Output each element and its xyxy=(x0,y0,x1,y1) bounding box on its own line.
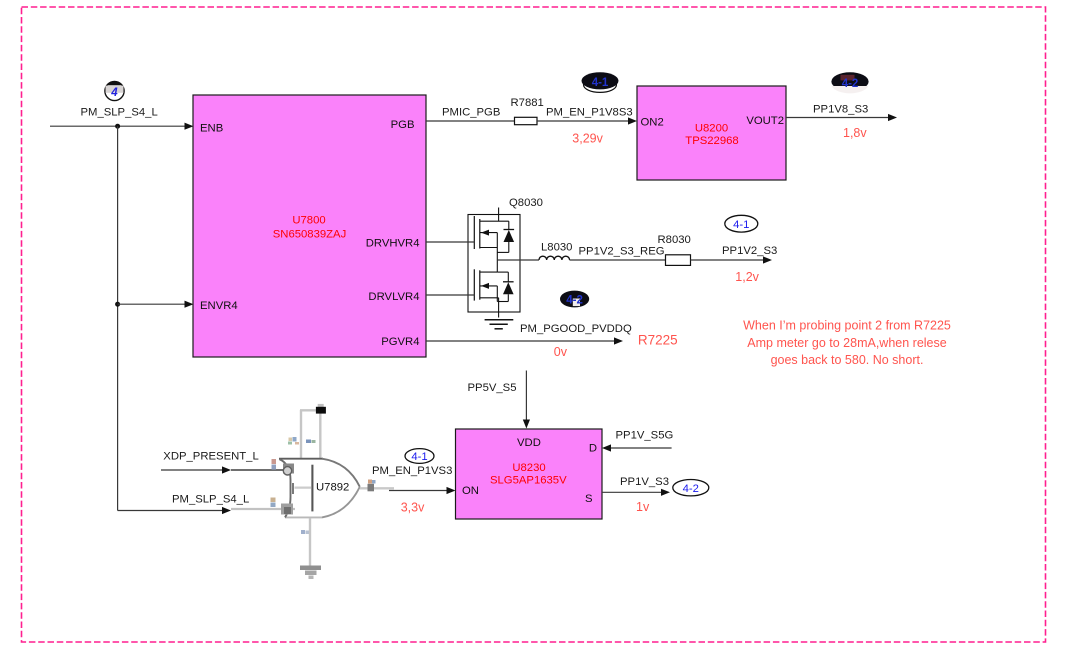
svg-text:4-2: 4-2 xyxy=(683,483,699,495)
wire R7881 to ON2 xyxy=(537,117,637,124)
svg-text:goes back to 580. No short.: goes back to 580. No short. xyxy=(771,353,924,367)
svg-text:VDD: VDD xyxy=(517,437,541,449)
svg-text:XDP_PRESENT_L: XDP_PRESENT_L xyxy=(163,450,258,462)
svg-text:D: D xyxy=(589,443,597,455)
svg-text:PP1V2_S3_REG: PP1V2_S3_REG xyxy=(579,245,665,257)
svg-text:U8200: U8200 xyxy=(695,123,728,135)
svg-text:PM_EN_P1VS3: PM_EN_P1VS3 xyxy=(372,465,452,477)
wire switch node xyxy=(497,259,539,261)
junction ENVR4 branch xyxy=(115,302,120,307)
svg-text:VOUT2: VOUT2 xyxy=(746,115,784,127)
wire VOUT2 output xyxy=(786,114,897,121)
marker 4-2 oval xyxy=(673,480,709,496)
svg-text:4-1: 4-1 xyxy=(592,77,609,89)
svg-text:DRVHVR4: DRVHVR4 xyxy=(366,238,420,250)
IC U8230 xyxy=(456,429,603,519)
svg-text:PP1V_S3: PP1V_S3 xyxy=(620,476,669,488)
wire S output PP1V_S3 xyxy=(602,489,670,496)
svg-text:U7892: U7892 xyxy=(316,482,349,494)
IC U8200 xyxy=(637,86,786,180)
svg-text:3,3v: 3,3v xyxy=(401,501,425,515)
wire ENVR4 input xyxy=(118,301,194,308)
svg-text:4-2: 4-2 xyxy=(566,295,583,307)
svg-text:Amp meter go to 28mA,when rele: Amp meter go to 28mA,when relese xyxy=(747,336,946,350)
svg-text:PMIC_PGB: PMIC_PGB xyxy=(442,107,500,119)
svg-text:ON: ON xyxy=(462,485,479,497)
svg-text:Q8030: Q8030 xyxy=(509,197,543,209)
wire ENB input xyxy=(50,123,194,130)
svg-text:U8230: U8230 xyxy=(512,462,545,474)
wire PM_SLP_S4_L to gate xyxy=(118,507,295,514)
svg-text:S: S xyxy=(585,493,593,505)
wire PP1V2_S3_REG xyxy=(570,259,666,261)
svg-text:R8030: R8030 xyxy=(658,234,691,246)
wire DRVHVR4 to gate xyxy=(426,241,474,243)
OR gate U7892 xyxy=(271,459,360,534)
svg-text:ENB: ENB xyxy=(200,123,223,135)
marker 4-2 dark xyxy=(831,72,868,93)
gate power rail xyxy=(288,404,326,459)
svg-text:4-2: 4-2 xyxy=(842,78,859,90)
IC U7800 xyxy=(193,95,426,357)
svg-text:1v: 1v xyxy=(636,500,650,514)
inductor L8030 xyxy=(539,241,572,260)
resistor R8030 xyxy=(658,234,691,266)
svg-text:4: 4 xyxy=(110,87,118,99)
svg-text:1,8v: 1,8v xyxy=(843,126,867,140)
svg-text:L8030: L8030 xyxy=(541,241,572,253)
marker 4-1 oval xyxy=(725,215,758,232)
node marker 4 xyxy=(105,81,124,100)
svg-text:R7225: R7225 xyxy=(638,333,678,348)
svg-text:PM_PGOOD_PVDDQ: PM_PGOOD_PVDDQ xyxy=(520,323,632,335)
svg-text:R7881: R7881 xyxy=(511,97,544,109)
marker 4-2 dark small xyxy=(560,291,589,308)
svg-text:ON2: ON2 xyxy=(641,117,664,129)
wire PP1V_S5G to D xyxy=(602,444,672,451)
svg-text:SN650839ZAJ: SN650839ZAJ xyxy=(273,229,346,241)
resistor R7881 xyxy=(511,97,544,125)
ground under Q8030 xyxy=(485,320,514,329)
svg-text:PM_SLP_S4_L: PM_SLP_S4_L xyxy=(81,107,158,119)
wire PGB to R7881 xyxy=(426,120,515,122)
svg-text:DRVLVR4: DRVLVR4 xyxy=(368,291,419,303)
wire gate output PM_EN_P1VS3 xyxy=(360,480,456,495)
svg-text:ENVR4: ENVR4 xyxy=(200,300,238,312)
transistor Q8030 (dual MOSFET with body diodes) xyxy=(468,208,520,318)
marker 4-1 dark xyxy=(582,72,619,92)
junction on ENB wire xyxy=(115,124,120,129)
svg-text:PP1V2_S3: PP1V2_S3 xyxy=(722,245,777,257)
svg-text:4-1: 4-1 xyxy=(733,219,749,231)
svg-text:SLG5AP1635V: SLG5AP1635V xyxy=(490,475,567,487)
svg-text:PM_EN_P1V8S3: PM_EN_P1V8S3 xyxy=(546,107,633,119)
svg-text:U7800: U7800 xyxy=(292,215,325,227)
marker 4-1 oval (gate) xyxy=(405,449,434,464)
svg-text:PP1V_S5G: PP1V_S5G xyxy=(616,430,674,442)
wire DRVLVR4 to gate xyxy=(426,294,474,296)
wire PGVR4 / PM_PGOOD_PVDDQ xyxy=(426,337,623,344)
svg-text:3,29v: 3,29v xyxy=(572,131,603,145)
svg-text:PGB: PGB xyxy=(391,119,415,131)
wire XDP_PRESENT_L xyxy=(161,466,289,473)
svg-text:TPS22968: TPS22968 xyxy=(685,135,738,147)
svg-text:0v: 0v xyxy=(554,345,568,359)
wire PP5V_S5 to VDD xyxy=(523,371,530,429)
svg-text:PM_SLP_S4_L: PM_SLP_S4_L xyxy=(172,493,249,505)
svg-text:1,2v: 1,2v xyxy=(735,270,759,284)
gate ground xyxy=(300,518,321,579)
note text xyxy=(743,318,951,367)
svg-text:PP1V8_S3: PP1V8_S3 xyxy=(813,103,868,115)
svg-text:When I’m probing point 2 from: When I’m probing point 2 from R7225 xyxy=(743,318,951,332)
wire vertical main net xyxy=(117,126,119,510)
wire PP1V2_S3 xyxy=(691,256,773,263)
svg-text:PP5V_S5: PP5V_S5 xyxy=(468,382,517,394)
svg-text:4-1: 4-1 xyxy=(411,451,427,463)
svg-text:PGVR4: PGVR4 xyxy=(381,336,419,348)
